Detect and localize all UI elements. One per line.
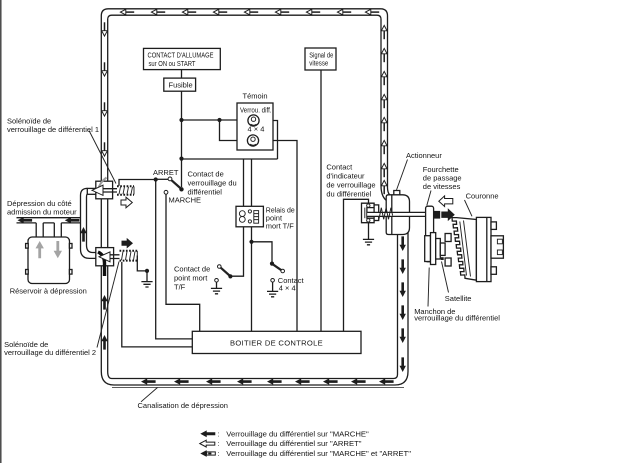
wire solenoid 2 coil to ground node — [137, 256, 145, 271]
actuator spring — [379, 208, 393, 220]
filled arrow right (MARCHE direction) — [441, 208, 455, 221]
indicator switch bracket — [362, 203, 379, 223]
svg-text:de vitesses: de vitesses — [423, 182, 461, 191]
ground indicator switch — [368, 223, 370, 240]
svg-text:admission du moteur: admission du moteur — [7, 207, 77, 216]
svg-text:Fusible: Fusible — [169, 80, 193, 89]
engine intake pipe (depression du cote admission du moteur) — [17, 218, 81, 223]
left lower border flow arrows (filled, pointing up) — [101, 295, 107, 350]
leader satellite — [442, 262, 449, 293]
svg-text:verrouillage de différentiel 1: verrouillage de différentiel 1 — [7, 125, 99, 134]
contact 4x4 switch — [267, 262, 305, 297]
solenoid valve 1 body — [87, 178, 117, 199]
intake flow arrow 1 (filled left) — [18, 217, 33, 223]
manchon de verrouillage (sleeve) — [425, 233, 441, 265]
lamp 4x4 — [247, 135, 258, 146]
svg-text:différentiel: différentiel — [188, 188, 223, 197]
svg-text:CONTACT D'ALLUMAGE: CONTACT D'ALLUMAGE — [148, 53, 214, 60]
svg-text:Verrou. diff.: Verrou. diff. — [240, 106, 272, 115]
svg-text:Actionneur: Actionneur — [406, 151, 442, 160]
svg-text::: : — [218, 431, 220, 438]
contact de verrouillage du differentiel switch (ARRET/MARCHE) — [153, 159, 201, 205]
node fuse/lamp junction — [179, 118, 183, 122]
label contact d'indicateur — [326, 163, 375, 199]
svg-text:4 × 4: 4 × 4 — [279, 283, 296, 292]
wire to lamp 2 — [220, 120, 248, 141]
leader actionneur — [397, 160, 408, 191]
wire junction to 4x4 contact — [252, 242, 273, 263]
wire relay left pin to T/F contact — [232, 227, 244, 276]
svg-text:BOITIER DE CONTROLE: BOITIER DE CONTROLE — [230, 338, 323, 347]
svg-text:verrouillage du différentiel: verrouillage du différentiel — [414, 314, 500, 323]
svg-text:T/F: T/F — [174, 283, 186, 292]
svg-text:Réservoir à dépression: Réservoir à dépression — [10, 286, 87, 295]
wire bus to relay pins — [244, 159, 252, 206]
actuator rod — [367, 212, 429, 216]
couronne (crown gear) body with teeth — [452, 218, 476, 281]
fusible box — [164, 78, 196, 91]
solenoid 1 coil — [117, 186, 134, 195]
fork hub black block — [434, 211, 441, 219]
solenoid 2 coil — [120, 251, 138, 261]
leader solenoide 2 label — [97, 262, 119, 348]
svg-text:sur ON ou START: sur ON ou START — [149, 61, 197, 68]
legend row 1: filled arrow = MARCHE — [200, 429, 369, 438]
label fourchette — [423, 165, 462, 191]
vacuum reservoir (reservoir a depression) — [26, 237, 72, 284]
temoin lamp box — [237, 92, 273, 150]
gray flow arrow down inside right pipe — [54, 241, 62, 258]
svg-text:point mort: point mort — [174, 274, 208, 283]
legend row 2: open arrow = ARRET — [200, 439, 362, 448]
wire allumage to fusible — [181, 70, 183, 79]
svg-text:Verrouillage du différentiel s: Verrouillage du différentiel sur "MARCHE… — [226, 449, 411, 458]
label solenoide 1 — [7, 116, 99, 134]
svg-text:Contact de: Contact de — [174, 265, 210, 274]
node solenoid 2 / ground junction — [145, 269, 149, 273]
wire fusible down — [181, 91, 183, 158]
svg-text:Verrouillage du différentiel s: Verrouillage du différentiel sur "MARCHE… — [226, 429, 369, 438]
wire solenoid 1 to ARRET line — [119, 180, 156, 186]
legend row 3: half arrow = MARCHE et ARRET — [200, 449, 411, 458]
signal de vitesse box — [305, 48, 336, 70]
svg-text:Verrouillage du différentiel s: Verrouillage du différentiel sur "ARRET" — [226, 439, 361, 448]
svg-text:Couronne: Couronne — [466, 191, 499, 200]
svg-text:Témoin: Témoin — [243, 92, 268, 101]
wire bus horizontal — [182, 158, 278, 160]
label depression moteur — [7, 199, 77, 216]
tube flow arrow up to valve — [80, 227, 86, 242]
wire solenoid 2 feed to control box — [122, 262, 193, 347]
leader canalisation — [141, 388, 158, 402]
leader couronne — [465, 200, 473, 216]
wire MARCHE contact to control box — [166, 194, 200, 331]
ground solenoid 2 — [146, 271, 148, 282]
label contact de verrouillage — [188, 170, 237, 197]
differential hub — [491, 236, 503, 258]
svg-text:vitesse: vitesse — [309, 60, 328, 67]
wire signal de vitesse to control box — [320, 70, 322, 331]
node lamp branch — [217, 118, 221, 122]
wire to lamp 1 — [182, 119, 249, 121]
wire ARRET node to control box — [156, 182, 193, 339]
svg-text:Canalisation de dépression: Canalisation de dépression — [138, 401, 228, 410]
bottom border flow arrows (MARCHE, filled, pointing left) — [141, 378, 394, 384]
top border flow arrows (ARRET, open, pointing left) — [120, 9, 379, 15]
vacuum line border inner — [108, 15, 404, 387]
open arrow left (ARRET direction) — [439, 196, 453, 207]
wire relay right pin down — [251, 227, 253, 331]
svg-text:d'indicateur: d'indicateur — [326, 172, 365, 181]
vacuum tube from valve 1 to reservoir/engine line — [81, 188, 96, 258]
svg-text:verrouillage du: verrouillage du — [188, 179, 237, 188]
svg-text:Satellite: Satellite — [445, 294, 472, 303]
valve 1 open arrow right (ARRET flow) — [121, 197, 132, 208]
contact de point mort T/F switch — [174, 265, 232, 294]
contact d'allumage box — [144, 48, 221, 69]
node feed bus — [179, 157, 183, 161]
svg-text:verrouillage du différentiel 2: verrouillage du différentiel 2 — [4, 348, 96, 357]
boitier de controle box — [192, 331, 361, 353]
node relay junction — [249, 240, 253, 244]
satellite (pinion parts) — [440, 234, 451, 267]
lamp verrou diff — [248, 115, 259, 126]
svg-text:du différentiel: du différentiel — [326, 190, 371, 199]
svg-text::: : — [218, 451, 220, 458]
svg-text::: : — [218, 441, 220, 448]
label solenoide 2 — [4, 340, 96, 357]
svg-text:de verrouillage: de verrouillage — [326, 181, 375, 190]
wire lamp 2 to control box — [259, 141, 297, 332]
right border flow arrows (open, pointing up) — [381, 25, 387, 194]
svg-text:MARCHE: MARCHE — [169, 196, 202, 205]
page edge scan line — [0, 0, 2, 463]
leader fourchette — [427, 191, 431, 206]
solenoid valve 2 body — [96, 248, 120, 276]
right lower tube flow arrows (filled, pointing down) — [400, 236, 406, 372]
leader manchon — [428, 268, 429, 307]
leader solenoide 1 label — [89, 131, 116, 184]
gray flow arrow up inside left pipe — [36, 241, 44, 258]
actuator shell (actionneur) — [386, 191, 409, 235]
vacuum line border outer (canalisation de depression) — [101, 9, 408, 385]
valve 2 filled arrow right (MARCHE flow) — [122, 238, 134, 249]
reservoir pipes — [36, 223, 61, 237]
intake flow arrow 2 (filled left) — [65, 217, 80, 223]
fourchette (shift fork) — [426, 206, 434, 262]
svg-text:ARRET: ARRET — [153, 168, 179, 177]
crown gear flange — [476, 217, 496, 281]
wire lamp 1 to bus — [259, 121, 277, 160]
svg-text:Signal de: Signal de — [309, 52, 333, 59]
left border flow arrows (open, pointing down) — [102, 22, 108, 156]
svg-text:Contact de: Contact de — [188, 170, 224, 179]
svg-text:Contact: Contact — [326, 163, 353, 172]
relais de point mort T/F box — [236, 205, 295, 230]
svg-text:mort T/F: mort T/F — [266, 221, 294, 230]
label manchon — [414, 307, 500, 323]
wire indicator contact to control box — [344, 199, 369, 331]
